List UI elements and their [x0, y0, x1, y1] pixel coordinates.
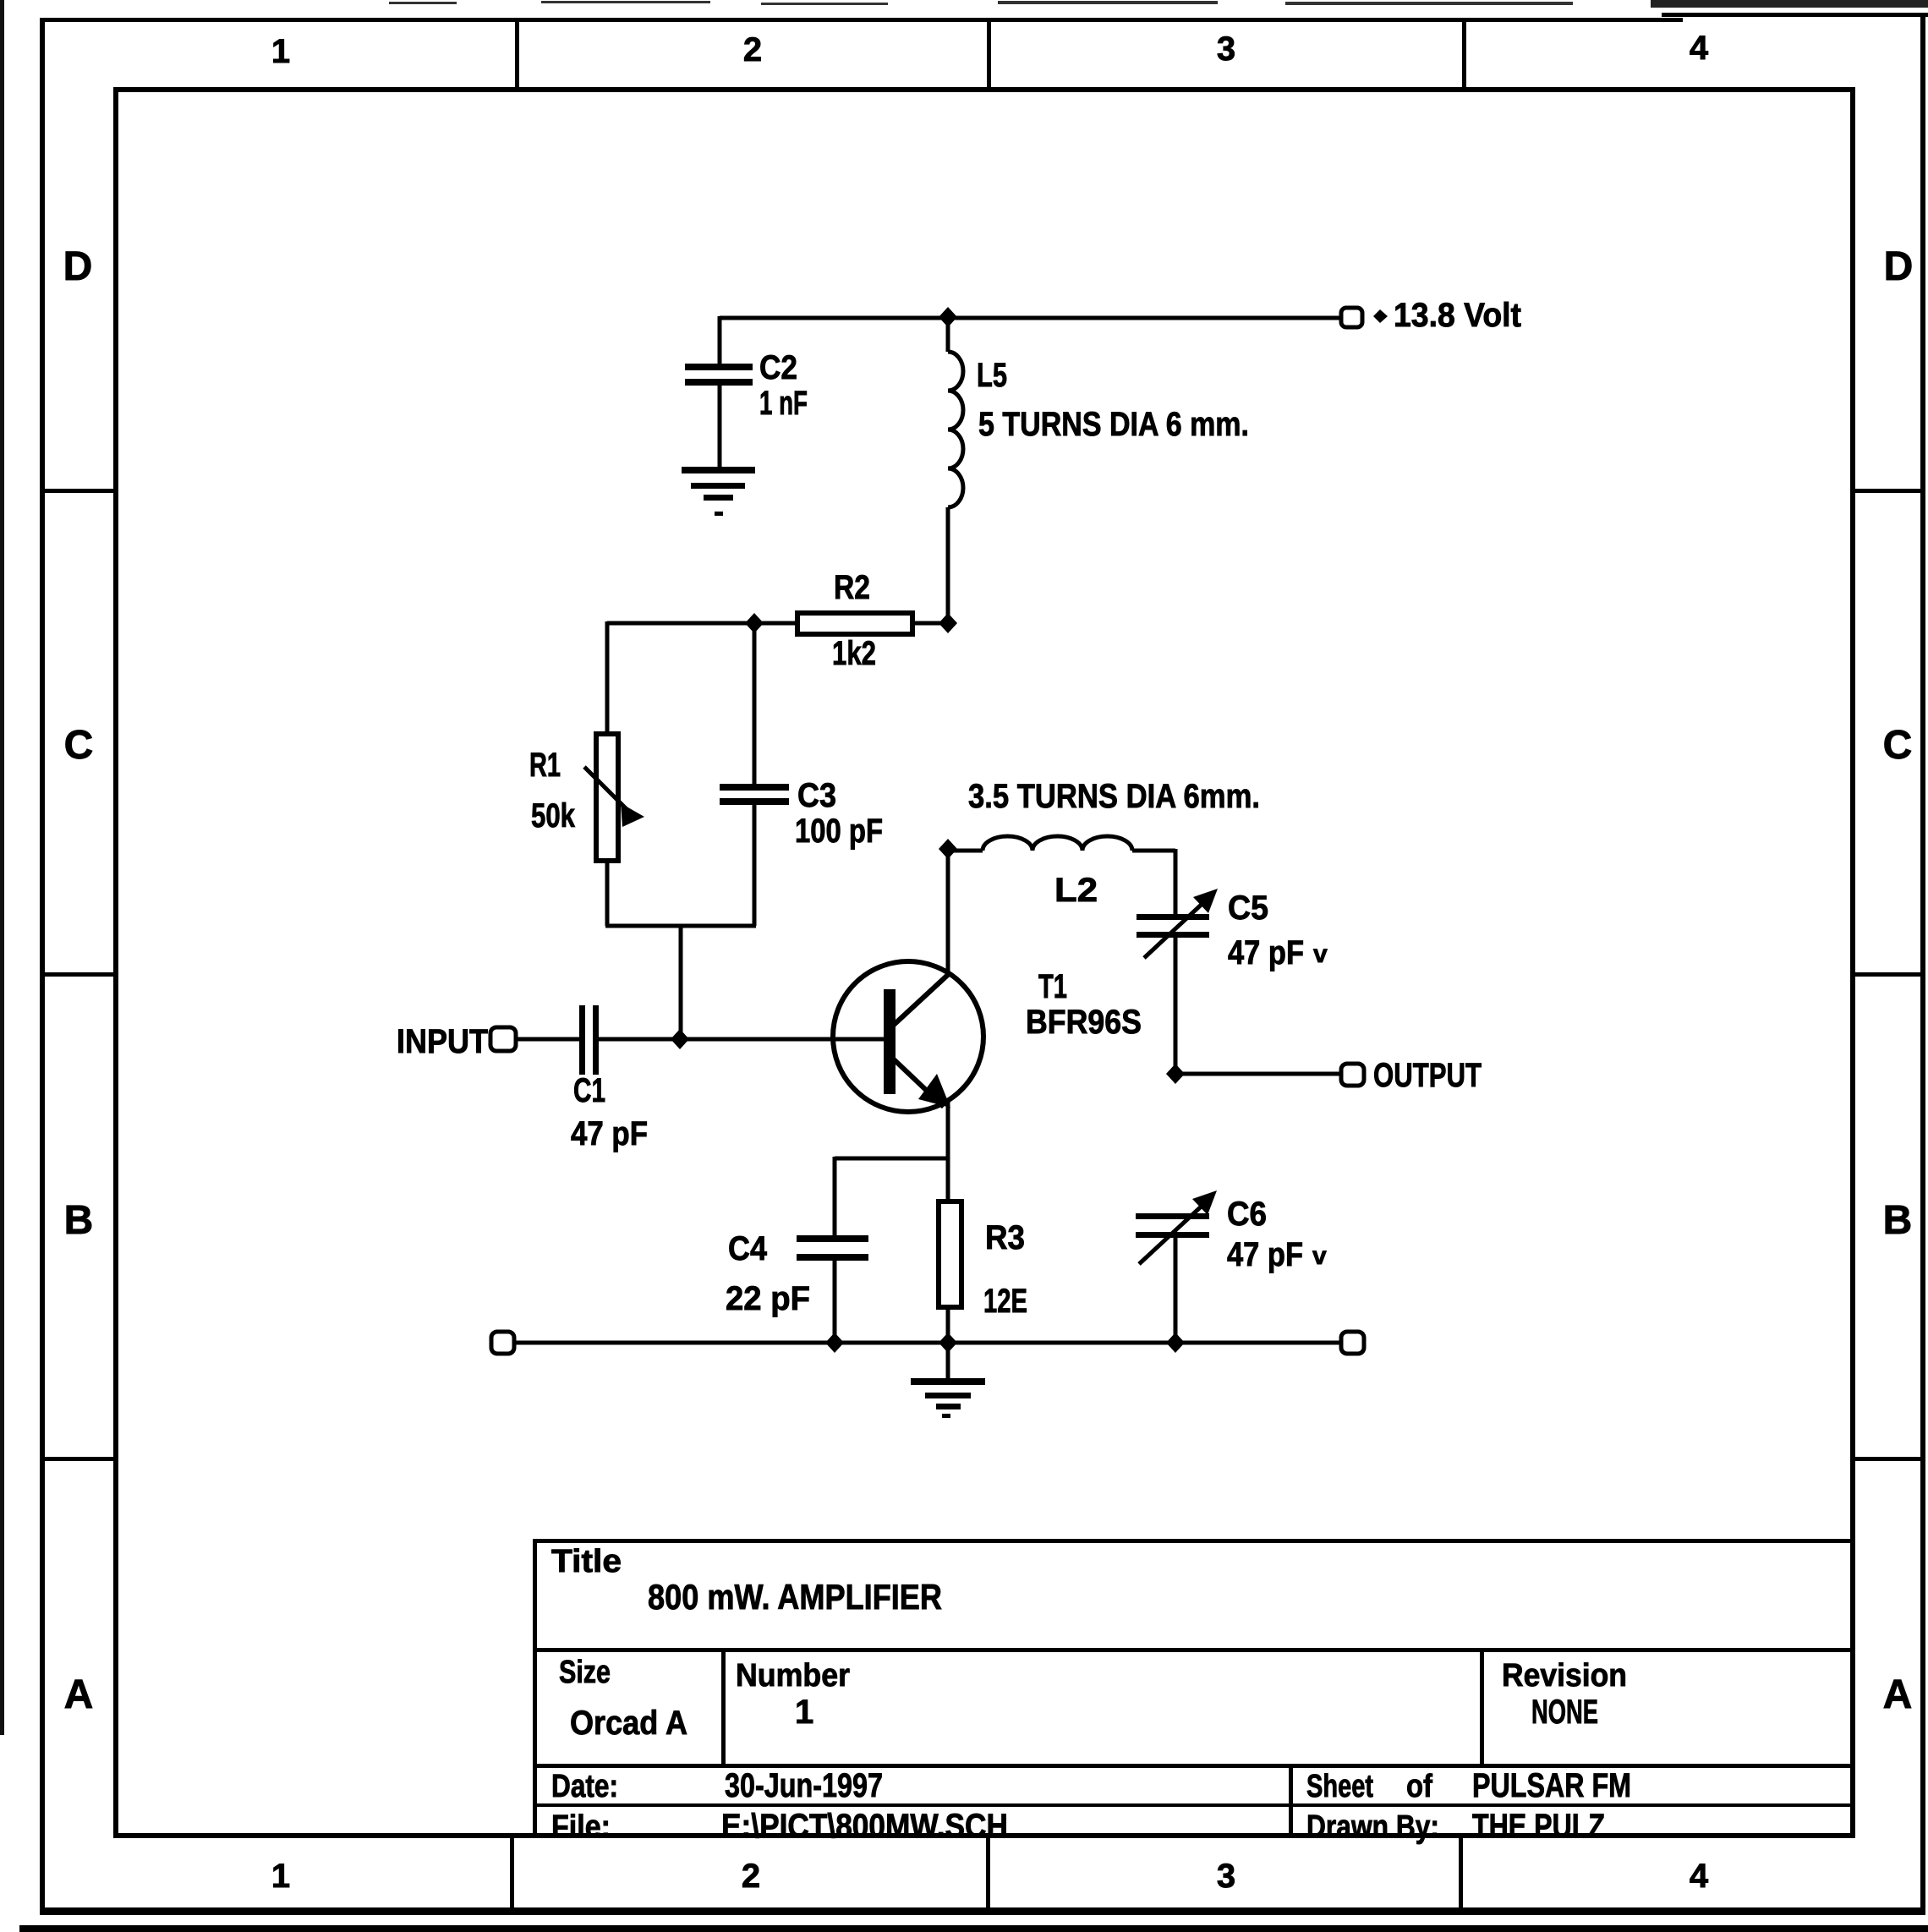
svg-text:R3: R3	[985, 1219, 1025, 1256]
capacitor C2	[685, 316, 808, 468]
svg-text:2: 2	[742, 1858, 760, 1895]
svg-text:1: 1	[271, 1858, 290, 1895]
svg-text:Revision: Revision	[1502, 1658, 1627, 1694]
svg-text:3: 3	[1217, 1858, 1235, 1895]
resistor R3	[939, 1201, 1027, 1344]
svg-text:3: 3	[1217, 30, 1235, 68]
junction collector/L2	[939, 839, 957, 859]
capacitor C5 variable	[1137, 889, 1328, 1075]
svg-text:B: B	[64, 1198, 94, 1243]
svg-text:1: 1	[795, 1694, 813, 1731]
svg-text:C1: C1	[573, 1072, 605, 1109]
svg-text:4: 4	[1690, 1858, 1709, 1895]
svg-text:100 pF: 100 pF	[795, 813, 883, 850]
inductor L5	[948, 318, 1249, 623]
svg-text:NONE: NONE	[1531, 1694, 1598, 1731]
svg-text:T1: T1	[1038, 968, 1067, 1005]
junction C6/rail	[1166, 1333, 1185, 1353]
junction R2/C3	[745, 613, 764, 633]
junction supply/L5	[939, 307, 957, 327]
svg-text:L5: L5	[977, 357, 1007, 394]
svg-text:C4: C4	[728, 1230, 768, 1267]
capacitor C1	[571, 1005, 884, 1152]
svg-text:Title: Title	[551, 1544, 622, 1579]
svg-text:1 nF: 1 nF	[759, 385, 808, 422]
svg-text:50k: 50k	[531, 797, 576, 835]
port +13.8 Volt	[1341, 297, 1521, 334]
svg-text:30-Jun-1997: 30-Jun-1997	[725, 1767, 883, 1804]
svg-text:Orcad A: Orcad A	[570, 1705, 687, 1742]
svg-text:OUTPUT: OUTPUT	[1373, 1057, 1482, 1094]
svg-text:C: C	[64, 723, 94, 768]
svg-text:v: v	[1312, 1242, 1327, 1270]
svg-text:D: D	[63, 244, 93, 289]
wire collector	[946, 849, 950, 974]
svg-text:C2: C2	[759, 349, 797, 386]
svg-text:L2: L2	[1054, 872, 1098, 909]
resistor R2	[797, 569, 948, 672]
svg-text:C6: C6	[1227, 1196, 1267, 1233]
inductor L2	[948, 778, 1260, 909]
port OUTPUT	[1175, 1057, 1482, 1094]
svg-text:1: 1	[271, 33, 290, 70]
svg-text:B: B	[1883, 1198, 1913, 1243]
svg-text:22 pF: 22 pF	[726, 1280, 810, 1317]
port INPUT	[397, 1023, 579, 1060]
svg-text:800 mW. AMPLIFIER: 800 mW. AMPLIFIER	[648, 1577, 942, 1617]
svg-text:Size: Size	[559, 1655, 611, 1690]
port bottom right	[1341, 1332, 1364, 1354]
svg-text:R1: R1	[529, 747, 561, 784]
svg-text:47 pF: 47 pF	[1228, 934, 1304, 971]
svg-text:C5: C5	[1228, 889, 1268, 927]
svg-text:THE PULZ: THE PULZ	[1472, 1808, 1605, 1845]
svg-text:C: C	[1883, 723, 1913, 768]
svg-text:Number: Number	[736, 1658, 850, 1694]
wire ground rail bottom	[514, 1341, 1341, 1345]
junction R2/rail	[939, 613, 957, 633]
wire supply rail top	[720, 316, 1343, 320]
junction R3/rail	[939, 1333, 957, 1353]
transistor T1	[833, 961, 1142, 1112]
svg-text:4: 4	[1690, 30, 1709, 67]
ground below C2	[682, 467, 755, 516]
wire bias to base	[679, 926, 683, 1039]
svg-text:PULSAR FM: PULSAR FM	[1472, 1767, 1631, 1804]
capacitor C3	[720, 623, 883, 926]
svg-text:47 pF: 47 pF	[571, 1115, 648, 1152]
svg-text:A: A	[1883, 1672, 1913, 1717]
wire R1/C3 bottom	[605, 924, 756, 928]
svg-text:Sheet: Sheet	[1306, 1769, 1373, 1804]
ground below R3	[911, 1344, 985, 1418]
potentiometer R1	[529, 734, 644, 926]
wire base bias top	[607, 621, 797, 734]
svg-text:13.8 Volt: 13.8 Volt	[1394, 297, 1521, 334]
capacitor C4	[726, 1157, 868, 1344]
svg-text:v: v	[1313, 940, 1328, 968]
port bottom left	[491, 1332, 514, 1354]
svg-text:C3: C3	[797, 777, 836, 814]
capacitor C6 variable	[1136, 1190, 1327, 1344]
svg-text:Date:: Date:	[551, 1769, 618, 1804]
svg-text:D: D	[1884, 244, 1914, 289]
svg-text:BFR96S: BFR96S	[1026, 1004, 1142, 1041]
svg-text:of: of	[1406, 1769, 1432, 1804]
svg-text:47 pF: 47 pF	[1227, 1236, 1303, 1273]
wire emitter	[835, 1100, 948, 1201]
svg-text:Drawn By:: Drawn By:	[1306, 1809, 1439, 1845]
svg-text:12E: 12E	[983, 1283, 1027, 1320]
svg-text:5 TURNS DIA 6 mm.: 5 TURNS DIA 6 mm.	[978, 406, 1249, 443]
svg-text:R2: R2	[834, 569, 870, 606]
svg-text:A: A	[64, 1672, 94, 1717]
svg-text:1k2: 1k2	[832, 635, 876, 672]
svg-text:E:\PICT\800MW.SCH: E:\PICT\800MW.SCH	[721, 1808, 1008, 1845]
junction output node	[1166, 1064, 1185, 1084]
svg-text:3.5 TURNS DIA 6mm.: 3.5 TURNS DIA 6mm.	[968, 778, 1260, 815]
svg-text:INPUT: INPUT	[397, 1023, 488, 1060]
junction C4/rail	[825, 1333, 844, 1353]
wire L2 to C5	[1174, 849, 1178, 916]
junction base wire	[671, 1029, 689, 1049]
svg-text:2: 2	[743, 31, 762, 68]
svg-text:File:: File:	[551, 1809, 611, 1845]
